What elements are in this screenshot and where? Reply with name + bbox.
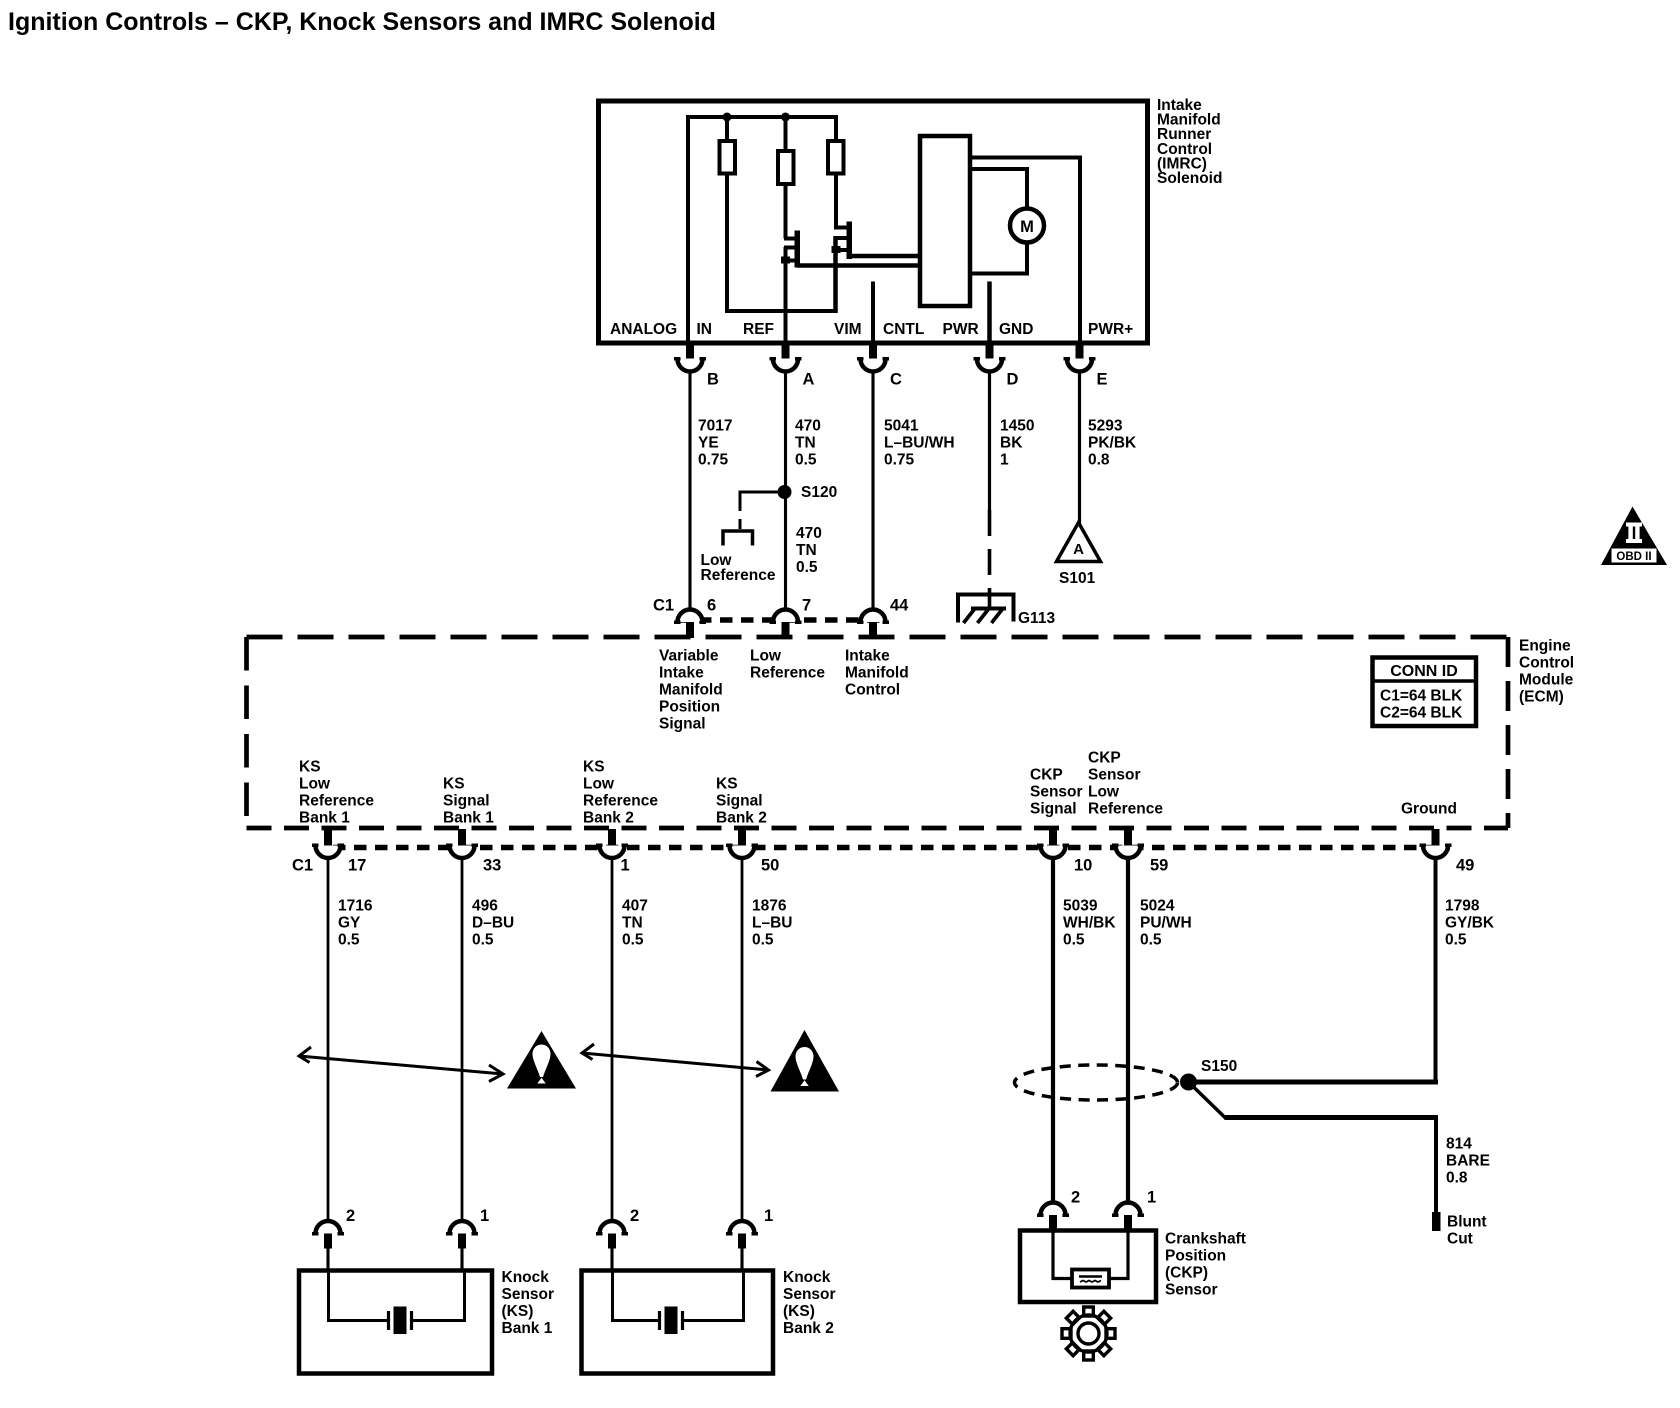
label: 1876 wire colour size (752, 898, 792, 949)
svg-text:1450: 1450 (1000, 418, 1034, 435)
IMRC solenoid box outline (599, 101, 1148, 343)
svg-text:B: B (707, 371, 719, 389)
connector pin C at IMRC (857, 344, 902, 389)
svg-text:Bank 1: Bank 1 (502, 1320, 553, 1337)
svg-text:Manifold: Manifold (659, 682, 723, 699)
dotted inline connector line at ECM top (678, 617, 888, 623)
ECM dashed box outline (247, 637, 1509, 828)
warning triangle symbol (bank 1) (507, 1031, 576, 1089)
svg-text:Signal: Signal (1030, 801, 1077, 818)
svg-text:KS: KS (443, 776, 465, 793)
wire: circuit 470 TN (A to ECM pin 7) (784, 372, 787, 611)
wire: stub into knock sensor box (610, 1249, 613, 1272)
svg-text:Control: Control (1519, 655, 1574, 672)
wire: circuit 814 BARE horizontal run (1225, 1115, 1439, 1120)
svg-text:1: 1 (1147, 1189, 1156, 1207)
svg-text:Signal: Signal (443, 793, 490, 810)
wire: internal bottom bus (725, 309, 836, 313)
twisted pair indicator arrow (bank 2) (582, 1044, 769, 1077)
svg-text:Position: Position (1165, 1248, 1226, 1265)
wire: stub into knock sensor box (460, 1249, 463, 1272)
connector pin 1 at knock sensor (726, 1207, 773, 1249)
svg-text:C1=64 BLK: C1=64 BLK (1380, 688, 1463, 705)
connector pin 1 at CKP sensor (1112, 1189, 1156, 1231)
wire: circuit 5041 L-BU/WH (C to ECM pin 44) (871, 372, 874, 611)
svg-text:7: 7 (802, 597, 811, 615)
svg-text:Bank 2: Bank 2 (716, 810, 767, 827)
gear symbol: reluctor wheel (1062, 1307, 1115, 1360)
svg-text:1876: 1876 (752, 898, 787, 915)
wire: KS1 internal left lead (329, 1271, 388, 1321)
svg-text:Position: Position (659, 699, 720, 716)
svg-text:17: 17 (348, 857, 366, 875)
svg-text:BK: BK (1000, 435, 1023, 452)
connector pin E at IMRC (1064, 344, 1108, 389)
label: 1716 wire colour size (338, 898, 373, 949)
connector pin 49 at ECM bottom (1420, 829, 1475, 875)
svg-text:Bank 1: Bank 1 (299, 810, 350, 827)
svg-text:0.5: 0.5 (472, 932, 494, 949)
wire: circuit 7017 YE (B to ECM pin 6) (688, 372, 691, 611)
svg-text:BARE: BARE (1446, 1153, 1490, 1170)
svg-text:50: 50 (761, 857, 779, 875)
svg-text:Reference: Reference (299, 793, 374, 810)
svg-text:TN: TN (795, 435, 816, 452)
wire: R1 branch lower (725, 174, 729, 314)
IMRC box label: Intake Manifold Runner Control (IMRC) Solenoid (1157, 97, 1222, 187)
label: KS Low Reference Bank 1 (299, 759, 374, 827)
svg-text:PU/WH: PU/WH (1140, 915, 1192, 932)
shield ellipse around CKP pair (1015, 1065, 1178, 1100)
label: 5039 wire colour size (1063, 898, 1116, 949)
label: KS Signal Bank 2 (716, 776, 767, 827)
svg-text:C: C (890, 371, 902, 389)
label: 1450 BK 1 (1000, 418, 1034, 469)
svg-text:E: E (1097, 371, 1108, 389)
svg-text:Sensor: Sensor (502, 1286, 555, 1303)
wire: motor bottom return to driver block (970, 243, 1027, 274)
svg-text:GND: GND (999, 321, 1033, 338)
wire: circuit 5024 PU/WH (pin 59 to CKP pin 1) (1126, 858, 1130, 1203)
warning triangle symbol (bank 2) (771, 1030, 840, 1092)
svg-text:1716: 1716 (338, 898, 373, 915)
wire: Q2 gate lead down to bottom bus (833, 236, 838, 313)
wire: KS1 internal right lead (413, 1271, 465, 1321)
svg-text:407: 407 (622, 898, 648, 915)
svg-text:Cut: Cut (1447, 1231, 1473, 1248)
wire: Q1 lead down to pin A (784, 247, 788, 344)
svg-text:Ground: Ground (1401, 801, 1457, 818)
transistor Q2 (832, 222, 853, 260)
svg-text:TN: TN (622, 915, 643, 932)
svg-text:(KS): (KS) (502, 1303, 534, 1320)
svg-text:5039: 5039 (1063, 898, 1098, 915)
wire: stub into knock sensor box (326, 1249, 329, 1272)
svg-text:GY: GY (338, 915, 361, 932)
svg-text:0.5: 0.5 (1445, 932, 1467, 949)
svg-text:REF: REF (743, 321, 774, 338)
svg-text:G113: G113 (1018, 610, 1055, 627)
wire: KS2 internal right lead (684, 1271, 744, 1321)
svg-text:0.5: 0.5 (1140, 932, 1162, 949)
svg-text:Blunt: Blunt (1447, 1214, 1487, 1231)
wire: CKP internal left lead (1053, 1231, 1072, 1279)
svg-text:ANALOG: ANALOG (610, 321, 677, 338)
svg-text:1: 1 (1000, 452, 1009, 469)
connector pin D at IMRC (974, 344, 1019, 389)
svg-text:2: 2 (630, 1207, 639, 1225)
svg-text:(ECM): (ECM) (1519, 689, 1564, 706)
svg-text:D–BU: D–BU (472, 915, 514, 932)
wire: circuit 5293 PK/BK (E to S101) (1078, 372, 1081, 525)
svg-text:A: A (803, 371, 815, 389)
connector pin 33 at ECM bottom (446, 829, 501, 875)
driver block rectangle (920, 136, 970, 306)
label: 496 wire colour size (472, 898, 514, 949)
IMRC pin name labels (610, 321, 1133, 338)
svg-text:Sensor: Sensor (1165, 1282, 1218, 1299)
svg-text:33: 33 (483, 857, 501, 875)
svg-text:814: 814 (1446, 1136, 1472, 1153)
label: KS Low Reference Bank 2 (583, 759, 658, 827)
piezo element KS2 (660, 1307, 683, 1335)
wire: S150 diagonal to bare strap (1190, 1084, 1226, 1119)
svg-text:TN: TN (796, 542, 817, 559)
splice S150 node (1180, 1074, 1197, 1091)
svg-text:CKP: CKP (1030, 767, 1063, 784)
svg-text:(CKP): (CKP) (1165, 1265, 1208, 1282)
svg-text:Bank 2: Bank 2 (583, 810, 634, 827)
svg-text:Knock: Knock (783, 1269, 831, 1286)
svg-text:Manifold: Manifold (845, 665, 909, 682)
wire: VIM lead to pin C (871, 282, 875, 345)
svg-text:KS: KS (716, 776, 738, 793)
svg-text:0.75: 0.75 (698, 452, 729, 469)
svg-text:KS: KS (299, 759, 321, 776)
twisted pair indicator arrow (bank 1) (299, 1047, 503, 1082)
svg-text:L–BU: L–BU (752, 915, 792, 932)
svg-text:CKP: CKP (1088, 750, 1121, 767)
wire: driver block to motor top (970, 169, 1027, 209)
connector pin 2 at CKP sensor (1037, 1189, 1080, 1231)
label: Engine Control Module (ECM) (1519, 638, 1574, 706)
svg-text:5041: 5041 (884, 418, 919, 435)
svg-text:Bank 2: Bank 2 (783, 1320, 834, 1337)
svg-text:IN: IN (697, 321, 713, 338)
wire: stub into knock sensor box (740, 1249, 743, 1272)
svg-text:Low: Low (750, 648, 782, 665)
svg-text:59: 59 (1150, 857, 1168, 875)
label: 7017 YE 0.75 (698, 418, 732, 469)
wire: circuit 5039 WH/BK (pin 10 to CKP pin 2) (1051, 858, 1055, 1203)
svg-text:A: A (1073, 541, 1084, 558)
svg-text:S150: S150 (1201, 1058, 1237, 1075)
svg-text:Variable: Variable (659, 648, 719, 665)
splice S120 node (778, 485, 792, 499)
knock sensor KS2 box (582, 1271, 774, 1374)
wire: circuit 1798 GY/BK (pin 49 to S150) (1434, 858, 1438, 1082)
svg-text:0.5: 0.5 (796, 559, 818, 576)
svg-text:1: 1 (480, 1207, 489, 1225)
wire: R3 branch upper (834, 117, 838, 141)
label: 5024 wire colour size (1140, 898, 1192, 949)
wire: circuit 1450 BK solid part (988, 372, 991, 511)
svg-text:Bank 1: Bank 1 (443, 810, 494, 827)
label: 5293 PK/BK 0.8 (1088, 418, 1137, 469)
connector pin 2 at knock sensor (596, 1207, 639, 1249)
svg-text:Module: Module (1519, 672, 1574, 689)
label: KS Signal Bank 1 (443, 776, 494, 827)
svg-text:0.5: 0.5 (752, 932, 774, 949)
svg-text:C1: C1 (292, 857, 313, 875)
wire: circuit 1450 BK dashed part (988, 510, 992, 608)
svg-text:470: 470 (795, 418, 821, 435)
svg-text:VIM: VIM (834, 321, 862, 338)
wire: R1 branch upper (725, 117, 729, 141)
svg-text:7017: 7017 (698, 418, 732, 435)
svg-text:CNTL: CNTL (883, 321, 924, 338)
svg-text:PWR+: PWR+ (1088, 321, 1133, 338)
wire: R2 to transistor Q1 (784, 184, 788, 239)
svg-text:49: 49 (1456, 857, 1474, 875)
svg-text:Crankshaft: Crankshaft (1165, 1231, 1246, 1248)
label: Low Reference (ECM pin 7) (750, 648, 825, 682)
svg-text:1: 1 (764, 1207, 773, 1225)
ground G113 symbol (958, 595, 1014, 624)
svg-text:5293: 5293 (1088, 418, 1123, 435)
wire: circuit 1876 L-BU (pin 50 to KS2 pin 1) (741, 858, 744, 1221)
label: Variable Intake Manifold Position Signal (659, 648, 723, 733)
svg-text:C2=64 BLK: C2=64 BLK (1380, 705, 1463, 722)
label: Knock Sensor (KS) Bank 2 (783, 1269, 836, 1337)
label: CKP Sensor Low Reference (1088, 750, 1163, 818)
label: 1798 wire colour size (1445, 898, 1495, 949)
motor M circle (1010, 209, 1044, 243)
wire: circuit 814 BARE drop (1434, 1118, 1438, 1213)
wire: Q1 source to driver block (797, 263, 920, 268)
svg-text:0.5: 0.5 (622, 932, 644, 949)
svg-text:470: 470 (796, 525, 822, 542)
connector pin 50 at ECM bottom (726, 829, 779, 875)
wire: GND lead to pin D (987, 282, 992, 345)
svg-text:Sensor: Sensor (1088, 767, 1141, 784)
connector pin 44 at ECM top (857, 597, 909, 639)
blunt cut terminal (1432, 1212, 1441, 1231)
connector pin 10 at ECM bottom (1037, 829, 1092, 875)
connector pin 59 at ECM bottom (1112, 829, 1168, 875)
svg-text:S120: S120 (801, 484, 837, 501)
svg-text:Intake: Intake (845, 648, 890, 665)
svg-text:(KS): (KS) (783, 1303, 815, 1320)
svg-text:PK/BK: PK/BK (1088, 435, 1137, 452)
svg-text:L–BU/WH: L–BU/WH (884, 435, 955, 452)
connector pin 7 at ECM top (770, 597, 812, 639)
svg-text:Reference: Reference (701, 567, 776, 584)
svg-text:Reference: Reference (1088, 801, 1163, 818)
connector pin A at IMRC (770, 344, 815, 389)
dotted inline connector line at ECM bottom (333, 845, 1450, 851)
resistor R3 (828, 141, 844, 174)
svg-text:D: D (1007, 371, 1019, 389)
splice S101 triangle (1057, 523, 1101, 562)
wire: dashed low reference drop (739, 499, 742, 529)
svg-text:Low: Low (583, 776, 615, 793)
svg-text:0.75: 0.75 (884, 452, 915, 469)
svg-text:CONN ID: CONN ID (1390, 663, 1458, 680)
svg-text:Intake: Intake (659, 665, 704, 682)
connector pin B at IMRC (674, 344, 719, 389)
connector pin 1 at ECM bottom (596, 829, 630, 875)
svg-text:44: 44 (890, 597, 909, 615)
label: CKP Sensor Signal (1030, 767, 1083, 818)
wire: circuit 407 TN (pin 1 to KS2 pin 2) (611, 858, 614, 1221)
svg-text:PWR: PWR (943, 321, 979, 338)
svg-text:C1: C1 (653, 597, 674, 615)
wire: S120 branch elbow (740, 492, 778, 499)
wire: R2 branch upper (784, 117, 788, 151)
svg-text:Signal: Signal (659, 716, 706, 733)
svg-text:YE: YE (698, 435, 719, 452)
node: junction dot at resistor R2 tap (781, 113, 790, 122)
connector pin 17 at ECM bottom (292, 829, 366, 875)
label: 5041 L-BU/WH 0.75 (884, 418, 955, 469)
svg-text:OBD II: OBD II (1616, 551, 1651, 563)
svg-text:Reference: Reference (750, 665, 825, 682)
svg-text:10: 10 (1074, 857, 1092, 875)
node: junction dot at resistor R1 tap (723, 113, 732, 122)
svg-text:Sensor: Sensor (1030, 784, 1083, 801)
wire: driver block to PWR+ pin E (970, 158, 1080, 345)
svg-text:Engine: Engine (1519, 638, 1571, 655)
svg-text:Reference: Reference (583, 793, 658, 810)
svg-text:S101: S101 (1059, 570, 1096, 587)
label: Intake Manifold Control (845, 648, 909, 699)
svg-text:2: 2 (1071, 1189, 1080, 1207)
svg-text:M: M (1020, 218, 1034, 236)
svg-text:Solenoid: Solenoid (1157, 170, 1222, 187)
wire: Q2 source to driver block (849, 254, 920, 259)
connector pin 6 at ECM top (653, 597, 716, 639)
svg-text:1: 1 (621, 857, 630, 875)
connector pin 1 at knock sensor (446, 1207, 489, 1249)
svg-text:0.5: 0.5 (1063, 932, 1085, 949)
resistor R2 (778, 151, 794, 184)
wire: KS2 internal left lead (613, 1271, 659, 1321)
svg-text:Sensor: Sensor (783, 1286, 836, 1303)
label: 470 TN 0.5 lower (796, 525, 822, 576)
svg-text:Low: Low (299, 776, 331, 793)
connector pin 2 at knock sensor (312, 1207, 355, 1249)
wire: CKP internal right lead (1109, 1231, 1128, 1279)
label: Low Reference (S120 branch) (701, 552, 776, 584)
svg-text:Signal: Signal (716, 793, 763, 810)
svg-text:2: 2 (346, 1207, 355, 1225)
wire: S150 to 1798 drain (1189, 1080, 1439, 1085)
svg-text:0.8: 0.8 (1446, 1170, 1468, 1187)
svg-text:GY/BK: GY/BK (1445, 915, 1495, 932)
svg-text:Knock: Knock (502, 1269, 550, 1286)
label: 814 BARE 0.8 (1446, 1136, 1490, 1187)
CKP sensor box (1020, 1231, 1156, 1303)
transistor Q1 (781, 231, 800, 268)
knock sensor KS1 box (299, 1271, 492, 1374)
svg-text:KS: KS (583, 759, 605, 776)
label: Crankshaft Position (CKP) Sensor (1165, 1231, 1246, 1299)
resistor R1 (720, 141, 736, 174)
svg-text:Low: Low (1088, 784, 1120, 801)
svg-text:WH/BK: WH/BK (1063, 915, 1116, 932)
connector fork: low reference half-connector (723, 531, 753, 546)
CONN ID table (1373, 658, 1477, 727)
wire: internal top bus (688, 117, 836, 344)
svg-text:0.5: 0.5 (795, 452, 817, 469)
svg-text:Control: Control (845, 682, 900, 699)
piezo element KS1 (389, 1307, 412, 1335)
svg-text:Ignition Controls – CKP, Knock: Ignition Controls – CKP, Knock Sensors a… (8, 8, 716, 36)
label: 470 TN 0.5 upper (795, 418, 821, 469)
OBD II marker symbol (1601, 507, 1667, 566)
svg-text:6: 6 (707, 597, 716, 615)
label: Knock Sensor (KS) Bank 1 (502, 1269, 555, 1337)
wire: R3 to transistor Q2 (836, 174, 847, 228)
wire: circuit 1716 GY (pin 17 to KS1 pin 2) (327, 858, 330, 1221)
svg-text:0.5: 0.5 (338, 932, 360, 949)
label: 407 wire colour size (622, 898, 648, 949)
label: Blunt Cut (1447, 1214, 1487, 1248)
svg-text:0.8: 0.8 (1088, 452, 1110, 469)
svg-text:1798: 1798 (1445, 898, 1480, 915)
svg-text:496: 496 (472, 898, 498, 915)
wire: circuit 496 D-BU (pin 33 to KS1 pin 1) (461, 858, 464, 1221)
CKP pickup element (1072, 1270, 1109, 1288)
svg-text:5024: 5024 (1140, 898, 1175, 915)
